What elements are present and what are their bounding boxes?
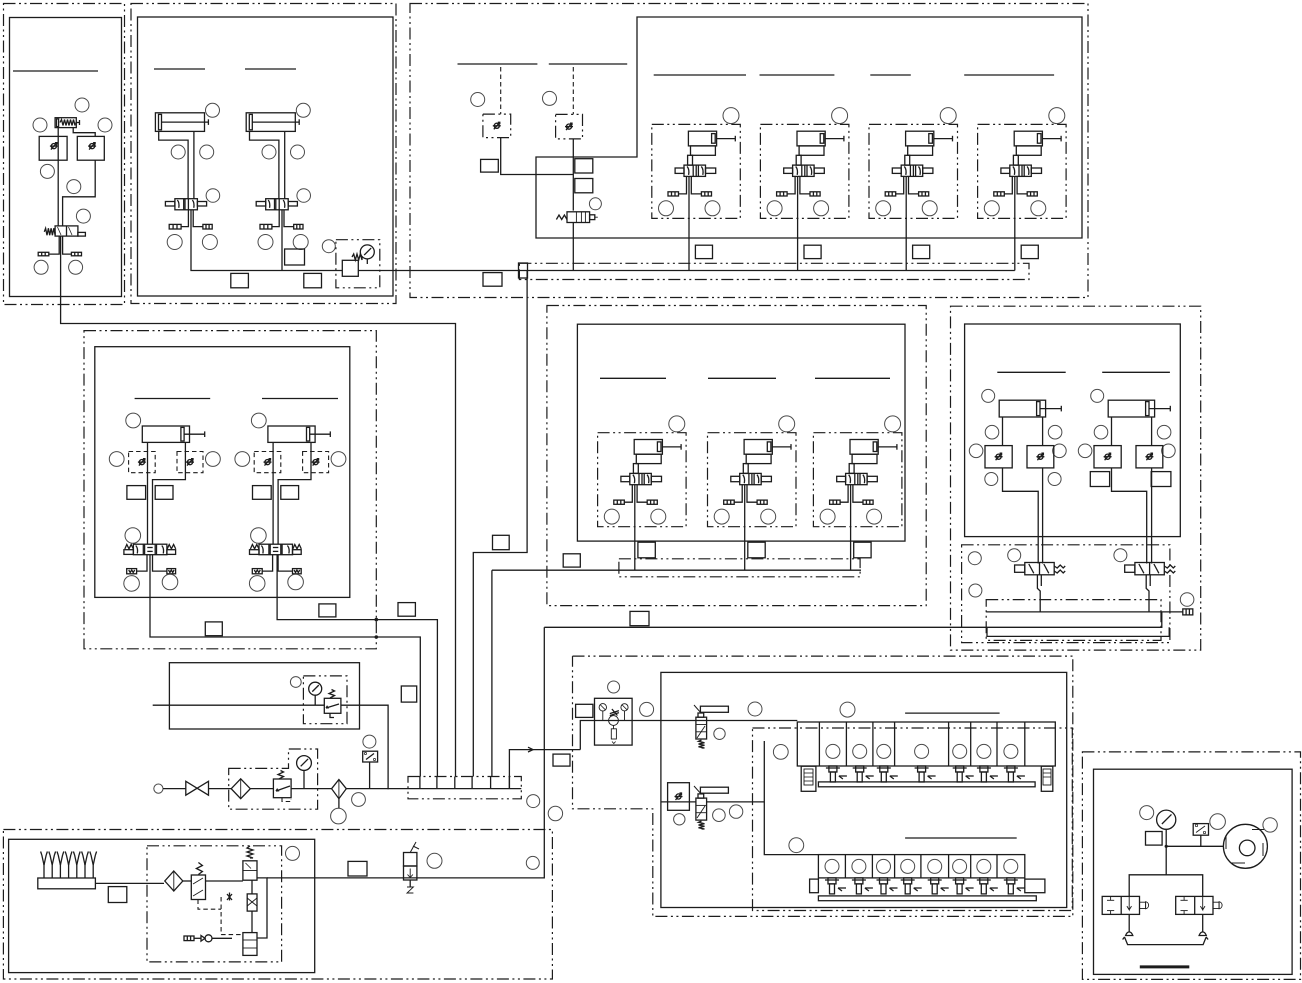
check valve column underline 2: [549, 63, 627, 65]
island 1 valve balloon: [1004, 744, 1018, 758]
island 2 valve balloon: [953, 859, 967, 873]
relief valve C3: [567, 212, 598, 223]
label plate: [398, 603, 415, 617]
wire group C5 feed: [797, 176, 799, 270]
station J outer boundary: [1082, 752, 1300, 980]
label plate: [108, 887, 127, 903]
island 2 valve balloon: [825, 859, 839, 873]
station G title underline 2: [1102, 371, 1170, 373]
vacuum filter: [165, 871, 183, 891]
flow arrow: [528, 747, 533, 752]
unit H1 spring: [610, 709, 619, 716]
check valve column underline 1: [458, 63, 538, 65]
island 2 underline: [905, 837, 1017, 839]
label plate: [553, 754, 570, 766]
island 1 valve balloon: [977, 744, 991, 758]
balloon: [985, 473, 998, 486]
cylinder G1 assembly: [969, 389, 1066, 468]
cylinder D1 assembly: [109, 413, 220, 591]
manifold G boundary: [986, 600, 1161, 641]
cylinder-valve group C6: [869, 108, 958, 219]
balloon: [331, 808, 347, 824]
wire: [250, 788, 273, 790]
relief valve C3 spring: [556, 215, 567, 220]
label plate: [285, 249, 305, 265]
manifold stub: [436, 777, 438, 789]
valve A2 symbol: [50, 143, 58, 150]
station B outer boundary: [131, 4, 396, 304]
balloon: [543, 91, 557, 105]
wire valve A3 down: [63, 160, 96, 226]
balloon: [67, 180, 81, 194]
gauge B3: [360, 245, 374, 259]
station K outer boundary: [3, 830, 552, 980]
wire to filter unit H: [544, 749, 580, 751]
vacuum manifold bar: [38, 878, 96, 889]
island 2 left end plate: [810, 879, 819, 893]
station H outer boundary: [573, 656, 1073, 916]
gauge J: [1157, 810, 1176, 829]
junction: [375, 618, 379, 622]
balloon: [548, 806, 562, 820]
dashed drop line: [500, 67, 502, 114]
station D title underline 2: [262, 398, 338, 400]
manifold bar: [408, 788, 521, 790]
balloon: [526, 856, 539, 869]
island 2 valve balloon: [852, 859, 866, 873]
station B title underline 1: [154, 68, 205, 70]
balloon: [286, 846, 300, 860]
station F title underline 2: [708, 377, 776, 379]
drain nozzle 1: [1126, 932, 1133, 936]
wire G2 left line: [1112, 468, 1147, 564]
cylinder-valve group F2: [708, 416, 797, 527]
regulator E spring: [329, 690, 335, 699]
muffler: [71, 252, 81, 256]
regulator H4 spring: [699, 821, 705, 829]
dashed pilot lines: [198, 900, 221, 910]
label plate: [348, 861, 367, 876]
wire regulator E line: [153, 704, 325, 706]
wire junction drop: [417, 627, 544, 878]
station G inner frame: [965, 324, 1181, 537]
label plate: [695, 245, 712, 258]
vacuum switch spring: [196, 863, 202, 875]
station K inner frame: [9, 839, 315, 972]
label plate: [304, 273, 322, 287]
2/2 valve J2: [1176, 896, 1222, 914]
label plate: [1146, 832, 1163, 846]
manifold stub: [454, 777, 456, 789]
balloon: [75, 98, 89, 112]
junction: [375, 635, 379, 639]
wire valve G3 output: [1037, 575, 1040, 612]
label plate: [563, 554, 580, 567]
manifold stub: [508, 777, 510, 789]
cylinder-valve group C4: [652, 108, 741, 219]
balloon: [789, 838, 804, 853]
regulator arrow: [276, 786, 290, 791]
junction: [1165, 845, 1168, 848]
label plate: [319, 604, 336, 617]
vacuum unit boundary: [147, 846, 282, 962]
ejector exhaust block: [243, 933, 257, 956]
wire relief valve drop: [572, 223, 574, 271]
label plate: [913, 245, 930, 258]
island 2 right end plate: [1025, 879, 1045, 893]
manifold G rail 2: [544, 612, 1162, 627]
drain stub: [338, 799, 340, 808]
island zone boundary: [753, 728, 1073, 911]
cylinder G2 assembly: [1078, 389, 1175, 468]
wire valve D2 output: [277, 555, 437, 777]
wire group F3 feed: [850, 485, 852, 571]
balloon: [363, 735, 376, 748]
label plate: [481, 159, 499, 172]
label plate: [804, 245, 821, 258]
manifold G rail 3: [987, 627, 1169, 636]
balloon: [674, 814, 685, 825]
supply rail strip boundary: [519, 263, 1029, 279]
island 2 cell dividers: [845, 855, 997, 878]
station C outer boundary: [410, 4, 1088, 298]
condensate tray: [1123, 937, 1209, 945]
island 1 fittings: [826, 766, 1025, 782]
valve K2 exhaust: [407, 880, 413, 893]
wire regulator to valve: [57, 128, 59, 226]
station H inner frame: [661, 672, 1067, 907]
island 2 valve balloon: [928, 859, 942, 873]
wire: [1149, 575, 1151, 586]
regulator B3 spring: [352, 254, 362, 260]
pilot port marker: [227, 893, 232, 901]
gauge J stem: [1165, 829, 1167, 846]
ejector valve block: [243, 861, 257, 880]
wire check valve C2 drop: [572, 139, 574, 211]
island 2 fittings: [825, 878, 1025, 894]
muffler: [1183, 609, 1193, 615]
drain nozzle 2: [1199, 932, 1206, 936]
balloon: [40, 164, 54, 178]
wire riser 5: [491, 570, 493, 776]
wire station A supply line: [61, 236, 456, 776]
cyl group underline 4: [964, 74, 1054, 76]
island 2 valve balloon: [977, 859, 991, 873]
station F outer boundary: [547, 306, 926, 606]
wire: [346, 788, 408, 790]
balloon: [729, 805, 742, 818]
check valve C2 boundary: [556, 114, 583, 138]
pressure regulator main: [273, 779, 291, 798]
balloon: [714, 728, 725, 739]
manifold rail F: [492, 569, 861, 571]
dryer: [332, 780, 347, 799]
wire compressor line: [1166, 845, 1223, 847]
label plate: [401, 686, 416, 702]
label plate: [575, 179, 593, 193]
label plate: [748, 542, 765, 558]
valve island 2 body: [818, 855, 1024, 878]
cylinder-valve group F1: [598, 416, 687, 527]
balloon: [608, 681, 620, 693]
vacuum generator: [247, 894, 257, 911]
balloon: [34, 260, 48, 274]
wire G1 left line: [1003, 468, 1039, 564]
cylinder B1 assembly: [155, 103, 219, 249]
pressure switch stem: [1200, 835, 1202, 846]
filter regulator unit H1: [595, 698, 633, 745]
valve A4 pilot: [78, 232, 86, 236]
gauge E: [309, 682, 322, 695]
wire group C6 feed: [905, 176, 907, 270]
station B inner frame: [138, 17, 394, 296]
balloon: [352, 793, 366, 807]
station F title underline 3: [815, 377, 890, 379]
balloon: [1008, 549, 1021, 562]
island 1 right end plate: [1041, 766, 1053, 791]
wire: [1040, 575, 1042, 586]
balloon: [1048, 473, 1061, 486]
wire drain 1: [1128, 914, 1130, 932]
flow control valve A2: [39, 136, 67, 160]
wire row2 feed b: [707, 801, 765, 803]
compressor: [1223, 824, 1267, 868]
island 1 valve balloon: [953, 744, 967, 758]
hand slide valve K2: [404, 842, 420, 880]
regulator H2 spring: [699, 740, 705, 748]
station F title underline 1: [600, 377, 666, 379]
manifold stub: [490, 777, 492, 789]
wire check valve C1: [501, 138, 574, 175]
manifold strip F boundary: [619, 559, 860, 577]
island 1 underline: [905, 712, 1000, 714]
station G title underline 1: [997, 371, 1065, 373]
wire to muffler: [49, 236, 59, 254]
wire valve B1 output: [191, 210, 342, 271]
pressure regulator A1: [55, 118, 79, 128]
balloon: [1210, 814, 1226, 830]
island 1 valve balloon: [826, 744, 840, 758]
balloon: [713, 809, 726, 822]
panel E frame: [169, 663, 359, 729]
filter-regulator boundary: [229, 749, 318, 809]
station D title underline 1: [135, 398, 211, 400]
balloon: [69, 260, 83, 274]
3/2 valve G4: [1125, 563, 1176, 575]
station G outer boundary: [951, 306, 1201, 650]
wire manifold J: [1129, 875, 1203, 897]
station B title underline 2: [245, 68, 296, 70]
wire row 1 feed: [580, 721, 797, 750]
island 1 left end plate: [801, 766, 816, 791]
station C inner frame (L-shape): [536, 17, 1082, 238]
label plate: [630, 611, 649, 625]
wire row2 feed a: [661, 801, 696, 803]
balloon: [589, 198, 601, 210]
regulator A1 spring: [60, 120, 75, 126]
balloon: [33, 118, 47, 132]
rail junction block: [519, 263, 528, 278]
station A outer boundary: [4, 4, 125, 305]
check valve C1 boundary: [483, 114, 511, 138]
balloon: [290, 677, 301, 688]
regulator E drain: [330, 713, 334, 717]
island 2 base bar: [818, 896, 1036, 901]
station J inner frame: [1094, 769, 1293, 974]
wire G2 right line: [1151, 468, 1153, 564]
precision regulator H4: [694, 786, 728, 820]
check element: [194, 935, 212, 942]
wire station B output rail: [358, 270, 519, 272]
label plate: [1021, 245, 1038, 258]
island 1 valve balloon: [915, 744, 929, 758]
island 2 valve balloon: [1004, 859, 1018, 873]
wire: [183, 880, 192, 882]
cylinder B2 assembly: [246, 103, 310, 249]
label plate: [1151, 472, 1171, 487]
ground bar: [1140, 965, 1190, 968]
wire group C7 feed: [1014, 176, 1016, 270]
manifold stub: [471, 777, 473, 789]
wire G1 right line: [1042, 468, 1044, 564]
2/2 valve J1: [1102, 896, 1148, 914]
balloon: [471, 93, 485, 107]
balloon: [968, 552, 981, 565]
wire: [212, 937, 232, 939]
gauge stem: [314, 695, 316, 705]
island 2 valve balloon: [901, 859, 915, 873]
island 2 valve balloon: [877, 859, 891, 873]
shutoff valve: [186, 781, 209, 795]
wire regulator E to supply: [341, 705, 388, 789]
regulator unit E boundary: [303, 676, 347, 724]
vacuum switch: [191, 875, 205, 900]
station A inner frame: [10, 18, 122, 297]
label plate: [576, 704, 593, 717]
wire group C4 feed: [688, 176, 690, 270]
air source port: [154, 784, 163, 793]
wire: [163, 788, 186, 790]
precision regulator H2: [694, 705, 728, 739]
distribution manifold boundary: [408, 777, 521, 799]
wire: [95, 882, 164, 884]
balloon: [748, 702, 762, 716]
muffler: [38, 252, 49, 256]
balloon: [969, 584, 982, 597]
cylinder-valve group C5: [760, 108, 849, 219]
balloon: [840, 702, 855, 717]
cyl group underline 2: [760, 74, 835, 76]
island 1 cell dividers: [819, 722, 1024, 766]
balloon: [1140, 806, 1154, 820]
island 1 valve balloon: [853, 744, 867, 758]
wire to muffler: [63, 236, 72, 254]
dashed drop line: [572, 67, 574, 114]
wire group F1 feed: [634, 485, 636, 571]
wire valve B2 output: [281, 210, 283, 271]
cylinder-valve group C7: [978, 108, 1067, 219]
pressure regulator E: [324, 698, 341, 713]
regulator unit B3 boundary: [336, 240, 380, 288]
regulator spring: [278, 771, 284, 780]
label plate: [1090, 472, 1109, 487]
wire group F2 feed: [744, 485, 746, 571]
wire: [206, 880, 243, 882]
balloon: [76, 209, 90, 223]
regulator E arrow: [326, 704, 339, 708]
wire down: [1165, 846, 1167, 875]
check valve C2: [565, 123, 573, 130]
gauge stem: [303, 770, 305, 788]
station G lower boundary: [962, 545, 1170, 643]
cylinder-valve group F3: [813, 416, 902, 527]
pressure switch stem: [369, 762, 371, 789]
wire: [291, 788, 331, 790]
label plate: [483, 273, 502, 287]
station D outer boundary: [84, 331, 376, 649]
station D inner frame: [95, 347, 350, 598]
pressure switch main: [363, 751, 378, 762]
wire ejector loop: [257, 878, 267, 938]
wire: [251, 880, 253, 894]
wire valve G4 output: [1146, 575, 1149, 612]
balloon: [1114, 549, 1127, 562]
3/2 valve G3: [1015, 563, 1066, 575]
label plate: [854, 542, 871, 558]
wire: [73, 128, 95, 137]
balloon: [1263, 818, 1277, 832]
vacuum line wire: [267, 877, 417, 879]
manifold stub: [419, 777, 421, 789]
check valve H3: [668, 783, 690, 811]
suction cup array: [41, 852, 97, 879]
muffler: [184, 936, 194, 941]
balloon: [527, 795, 540, 808]
label plate: [493, 535, 510, 549]
balloon: [1180, 593, 1194, 607]
station A title underline: [13, 70, 98, 72]
label plate: [575, 159, 593, 173]
5/2 directional valve A4: [55, 226, 78, 236]
gauge main: [297, 756, 312, 771]
balloon: [322, 240, 335, 253]
label plate: [231, 273, 249, 287]
regulator drain: [282, 798, 291, 802]
island 1 base bar: [818, 782, 1035, 787]
wire row2 downfeed: [764, 741, 818, 855]
cyl group underline 1: [654, 74, 746, 76]
supply rail wire: [519, 270, 1014, 272]
label plate: [638, 542, 655, 558]
pressure switch J: [1193, 824, 1208, 836]
station F inner frame: [577, 324, 905, 541]
check valve C1: [493, 122, 501, 129]
balloon: [773, 745, 788, 760]
valve island 1 body: [797, 722, 1055, 766]
filter: [231, 779, 250, 799]
wire drain 2: [1202, 914, 1204, 932]
wire valve D1 output: [150, 555, 420, 777]
wire: [251, 911, 253, 933]
ejector spring: [247, 846, 253, 858]
gauge stem: [366, 259, 368, 264]
balloon: [640, 702, 654, 716]
check valve H3 symbol: [675, 793, 683, 800]
label plate: [205, 622, 222, 636]
island 1 valve balloon: [877, 744, 891, 758]
valve A3 symbol: [88, 143, 96, 150]
wire manifold to junction: [509, 750, 544, 789]
